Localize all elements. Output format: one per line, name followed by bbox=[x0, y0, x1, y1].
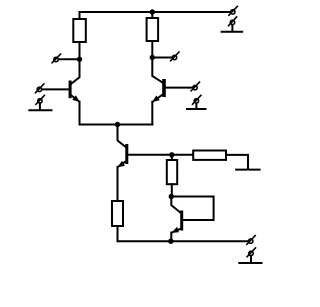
wire node C to Q4 collector bbox=[171, 197, 180, 213]
wire node B to Q2 collector bbox=[152, 58, 162, 83]
wire Q1 emitter down bbox=[79, 102, 81, 125]
wire tail to Q3 collector bbox=[118, 125, 126, 147]
transistor Q2 base bar bbox=[162, 79, 166, 97]
node A junction dot bbox=[77, 57, 82, 62]
resistor R1 bbox=[73, 19, 86, 42]
transistor Q4 base bar bbox=[180, 211, 183, 231]
transistor Q3 base bar bbox=[125, 144, 128, 164]
terminal X10 (bottom reference) bbox=[247, 248, 255, 263]
ground bar under X8 bbox=[187, 108, 206, 110]
terminal X9 (bottom supply) bbox=[247, 236, 255, 245]
resistor R5 bbox=[112, 201, 123, 226]
junction top rail / R2 bbox=[150, 9, 155, 14]
wire node B to terminal X6 bbox=[152, 57, 172, 59]
wire node A to Q1 collector bbox=[71, 59, 79, 83]
wire base of Q3 to node N1 bbox=[128, 154, 172, 156]
wire Q2 emitter down bbox=[151, 102, 153, 125]
junction bottom rail / Q4 bbox=[168, 239, 173, 244]
wire X3 to node A bbox=[59, 58, 80, 60]
wire base of Q2 bbox=[166, 87, 193, 89]
terminal X5 (left input reference) bbox=[36, 95, 44, 110]
ground bar (R4 return) bbox=[236, 169, 259, 171]
node C junction dot bbox=[169, 194, 174, 199]
wire top rail bbox=[80, 12, 231, 19]
terminal X8 (right input reference) bbox=[193, 95, 201, 108]
transistor Q1 base bar bbox=[69, 81, 72, 99]
wire R2 bottom to node B bbox=[151, 41, 153, 58]
transistor Q4 emitter bbox=[172, 229, 181, 233]
ground bar under X5 bbox=[29, 109, 51, 111]
transistor Q1 emitter bbox=[72, 96, 80, 102]
node B junction dot bbox=[150, 55, 155, 60]
resistor R2 bbox=[147, 18, 159, 41]
ground bar under X10 bbox=[239, 262, 261, 264]
resistor R3 bbox=[167, 160, 177, 184]
wire R1 bottom to node A bbox=[79, 42, 81, 59]
junction tail node bbox=[115, 122, 120, 127]
wire N1 to R4 bbox=[172, 154, 193, 156]
transistor Q2 emitter bbox=[153, 95, 163, 102]
wire base of Q1 bbox=[42, 88, 68, 90]
terminal X3 (left output) bbox=[52, 54, 60, 63]
resistor R4 bbox=[193, 151, 226, 160]
terminal X6 (right output) bbox=[171, 52, 179, 61]
wire Q4 collector-base loop bbox=[171, 197, 213, 221]
wire R4 right to ground bbox=[226, 155, 248, 170]
wire R2 top stub bbox=[151, 12, 153, 18]
terminal X7 (right input) bbox=[191, 82, 199, 91]
terminal X1 (top supply) bbox=[229, 6, 237, 15]
wire tail (emitters common) bbox=[80, 124, 153, 126]
terminal X2 (supply reference) bbox=[229, 17, 237, 32]
wire Q3 emitter down to R5 bbox=[117, 167, 119, 201]
wire R5 bottom to bottom rail bbox=[118, 226, 250, 241]
wire Q4 emitter to bottom rail bbox=[170, 233, 172, 242]
ground bar under X2 bbox=[222, 31, 243, 33]
terminal X4 (left input) bbox=[36, 84, 44, 93]
wire R3 bottom to node C bbox=[171, 184, 173, 196]
wire N1 to R3 bbox=[171, 155, 173, 160]
node N1 junction dot bbox=[169, 152, 174, 157]
transistor Q3 emitter bbox=[118, 161, 126, 167]
